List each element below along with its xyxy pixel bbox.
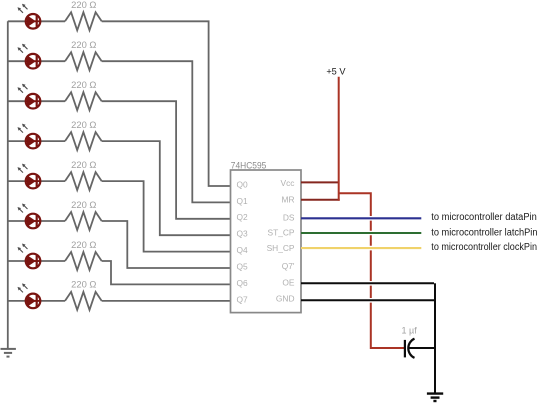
wire: rail to LED1 to resistor R1 [8,60,65,62]
LED LED3 [18,84,41,109]
svg-text:220 Ω: 220 Ω [71,159,96,170]
wire: rail to LED3 to resistor R3 [8,140,65,142]
svg-text:220 Ω: 220 Ω [71,239,96,250]
svg-text:Q5: Q5 [237,261,249,271]
wire: resistor R2 to shift register pin Q2 [102,101,231,219]
LED LED4 [18,124,41,149]
capacitor C1 1uF [402,325,418,358]
LED LED7 [18,244,41,269]
wire: rail to LED4 to resistor R4 [8,180,65,182]
wire: resistor R1 to shift register pin Q1 [102,61,231,202]
svg-text:ST_CP: ST_CP [268,228,295,238]
wire: ground vertical (right, black) [434,283,436,393]
svg-text:74HC595: 74HC595 [231,160,266,170]
LED LED5 [18,164,41,189]
LED LED1 [18,4,41,29]
svg-text:220 Ω: 220 Ω [71,119,96,130]
svg-text:OE: OE [282,278,295,288]
wire: MR pin to +5V (dark red) [301,199,340,201]
svg-text:to microcontroller clockPin: to microcontroller clockPin [431,242,537,253]
ground symbol (right, black) [427,394,443,401]
resistor R3 220 ohm [65,119,102,150]
svg-text:Q1: Q1 [237,196,249,206]
wire: DS to microcontroller dataPin (blue) [301,216,421,221]
svg-text:220 Ω: 220 Ω [71,0,96,10]
svg-text:DS: DS [283,213,295,223]
wire: ST_CP to microcontroller latchPin (green) [301,231,421,236]
resistor R2 220 ohm [65,79,102,110]
LED LED2 [18,44,41,69]
wire: resistor R7 to pin Q7 [102,300,231,302]
svg-text:Q3: Q3 [237,229,249,239]
ground rail wire (left) [7,21,9,348]
svg-text:MR: MR [281,195,294,205]
wire: OE pin to ground (black) [301,281,434,286]
resistor R0 220 ohm [65,0,102,30]
wire: resistor R5 to shift register pin Q5 [102,221,231,268]
LED LED8 [18,283,41,308]
svg-text:+5 V: +5 V [326,66,346,76]
wire: GND pin to ground (black) [301,298,434,303]
wire: resistor R6 to shift register pin Q6 [102,261,231,284]
resistor R4 220 ohm [65,159,102,190]
svg-text:1 µf: 1 µf [402,325,418,335]
resistor R6 220 ohm [65,239,102,270]
svg-text:to microcontroller latchPin: to microcontroller latchPin [431,228,537,239]
LED LED6 [18,204,41,229]
svg-text:Vcc: Vcc [281,178,295,188]
svg-text:to microcontroller dataPin: to microcontroller dataPin [431,212,537,223]
svg-text:Q6: Q6 [237,278,249,288]
wire: resistor R4 to shift register pin Q4 [102,181,231,252]
svg-text:220 Ω: 220 Ω [71,279,96,290]
svg-text:GND: GND [276,294,295,304]
wire: rail to LED2 to resistor R2 [8,100,65,102]
svg-text:Q0: Q0 [237,179,249,189]
wire: resistor R0 to shift register pin Q0 [102,21,231,186]
wire: rail to LED0 to resistor R0 [8,20,65,22]
wire: SH_CP to microcontroller clockPin (yellow) [301,246,421,251]
svg-text:220 Ω: 220 Ω [71,79,96,90]
svg-text:220 Ω: 220 Ω [71,39,96,50]
resistor R7 220 ohm [65,279,102,310]
svg-text:Q4: Q4 [237,245,249,255]
wire: rail to LED5 to resistor R5 [8,220,65,222]
ground symbol (left, gray) [1,349,16,357]
wire: resistor R3 to shift register pin Q3 [102,141,231,235]
wire: capacitor C1 to ground net [409,347,435,349]
resistor R1 220 ohm [65,39,102,70]
wire: rail to LED7 to resistor R7 [8,300,65,302]
wire: +5V branch to capacitor C1 (red) [339,193,405,348]
svg-text:Q7': Q7' [282,261,295,271]
wire: rail to LED6 to resistor R6 [8,260,65,262]
svg-text:SH_CP: SH_CP [267,243,295,253]
resistor R5 220 ohm [65,199,102,230]
svg-text:Q7: Q7 [237,294,249,304]
+5V supply vertical wire [338,77,340,201]
svg-text:Q2: Q2 [237,212,249,222]
svg-text:220 Ω: 220 Ω [71,199,96,210]
IC U1 74HC595 shift register [231,160,302,312]
wire: Vcc pin to +5V (dark red) [301,181,339,183]
